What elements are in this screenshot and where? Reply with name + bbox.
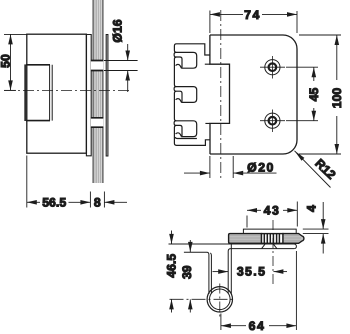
svg-text:4: 4 bbox=[305, 205, 319, 212]
left view: inner recess rectangle bbox=[24, 64, 52, 121]
bottom view: hinge arm flange bottom edge bbox=[228, 249, 294, 293]
bottom view: knurled nut section bbox=[262, 234, 284, 244]
svg-text:46.5: 46.5 bbox=[165, 254, 179, 278]
dimension 100 bbox=[299, 35, 341, 154]
left view: upper bolt hole block in glass bbox=[91, 61, 104, 71]
dimension R12 leader and label bbox=[295, 151, 331, 188]
front view: lower screw hole bbox=[260, 110, 285, 133]
dimension 56.5 bbox=[27, 156, 91, 208]
svg-text:Ø16: Ø16 bbox=[110, 19, 124, 42]
svg-text:8: 8 bbox=[94, 196, 101, 210]
dimension 50 bbox=[4, 34, 27, 90]
front view: upper screw hole bbox=[260, 56, 285, 79]
front view: comb hump 1 bbox=[176, 64, 182, 68]
svg-text:35.5: 35.5 bbox=[237, 264, 267, 278]
bottom view: arm left wall with 39 extension bbox=[184, 252, 212, 294]
dimension 39 bbox=[188, 240, 193, 313]
bottom view: barrel inner circle bbox=[210, 289, 231, 310]
front view: comb bottom bar top edge bbox=[175, 137, 197, 138]
svg-text:39: 39 bbox=[180, 265, 194, 279]
bottom view: clamp bar right gray section bbox=[283, 234, 304, 244]
front view: comb hump 3 bbox=[176, 133, 182, 137]
front view: comb slot 2 bbox=[174, 87, 197, 103]
dimension 35.5 bbox=[213, 269, 288, 274]
dimension Ø16 bbox=[104, 44, 138, 92]
svg-text:100: 100 bbox=[330, 88, 344, 109]
front view: knuckle comb outline bbox=[174, 44, 210, 146]
bottom view: hinge arm flange top edge with 46.5 extension bbox=[169, 244, 297, 294]
bottom view: glass strip bbox=[243, 229, 296, 233]
bottom view: nut centerline bbox=[272, 220, 274, 287]
dimension 43 bbox=[247, 202, 297, 228]
svg-text:64: 64 bbox=[249, 319, 266, 333]
dimension 64 bbox=[221, 251, 297, 330]
dimension 46.5 bbox=[169, 231, 174, 313]
left view: main hinge body rectangle bbox=[27, 34, 87, 153]
left view: horizontal centerline bbox=[4, 89, 130, 91]
svg-text:50: 50 bbox=[0, 54, 13, 68]
front view: comb slot 3 bbox=[174, 121, 197, 137]
svg-text:45: 45 bbox=[307, 88, 321, 102]
front view: vertical centerline through knuckles bbox=[220, 10, 222, 181]
svg-text:Ø20: Ø20 bbox=[247, 160, 275, 174]
svg-text:43: 43 bbox=[264, 203, 281, 217]
front view: comb slot 1 bbox=[174, 52, 197, 68]
left view: clamp plate strip right of glass bbox=[106, 35, 108, 157]
dimension 74 bbox=[210, 11, 297, 34]
left view: clamp plate strip left of glass bbox=[86, 35, 91, 156]
bottom view: nut lower chamfer marks bbox=[262, 244, 277, 248]
front view: mounting plate outline bbox=[205, 35, 297, 154]
svg-text:56.5: 56.5 bbox=[42, 196, 66, 210]
svg-text:74: 74 bbox=[244, 8, 261, 22]
dimension 45 bbox=[286, 67, 318, 121]
bottom view: barrel outer circle bbox=[207, 287, 232, 312]
dimension 4 bbox=[303, 202, 329, 254]
dimension Ø20 bbox=[184, 156, 277, 178]
left view: glass panel edge lines bbox=[93, 0, 103, 183]
front view: comb hump 2 bbox=[176, 99, 182, 103]
left view: lower bolt hole block in glass bbox=[91, 118, 104, 127]
dimension 8 bbox=[104, 192, 127, 208]
bottom view: barrel centerlines bbox=[170, 284, 234, 318]
bottom view: clamp bar left gray section bbox=[229, 234, 262, 244]
